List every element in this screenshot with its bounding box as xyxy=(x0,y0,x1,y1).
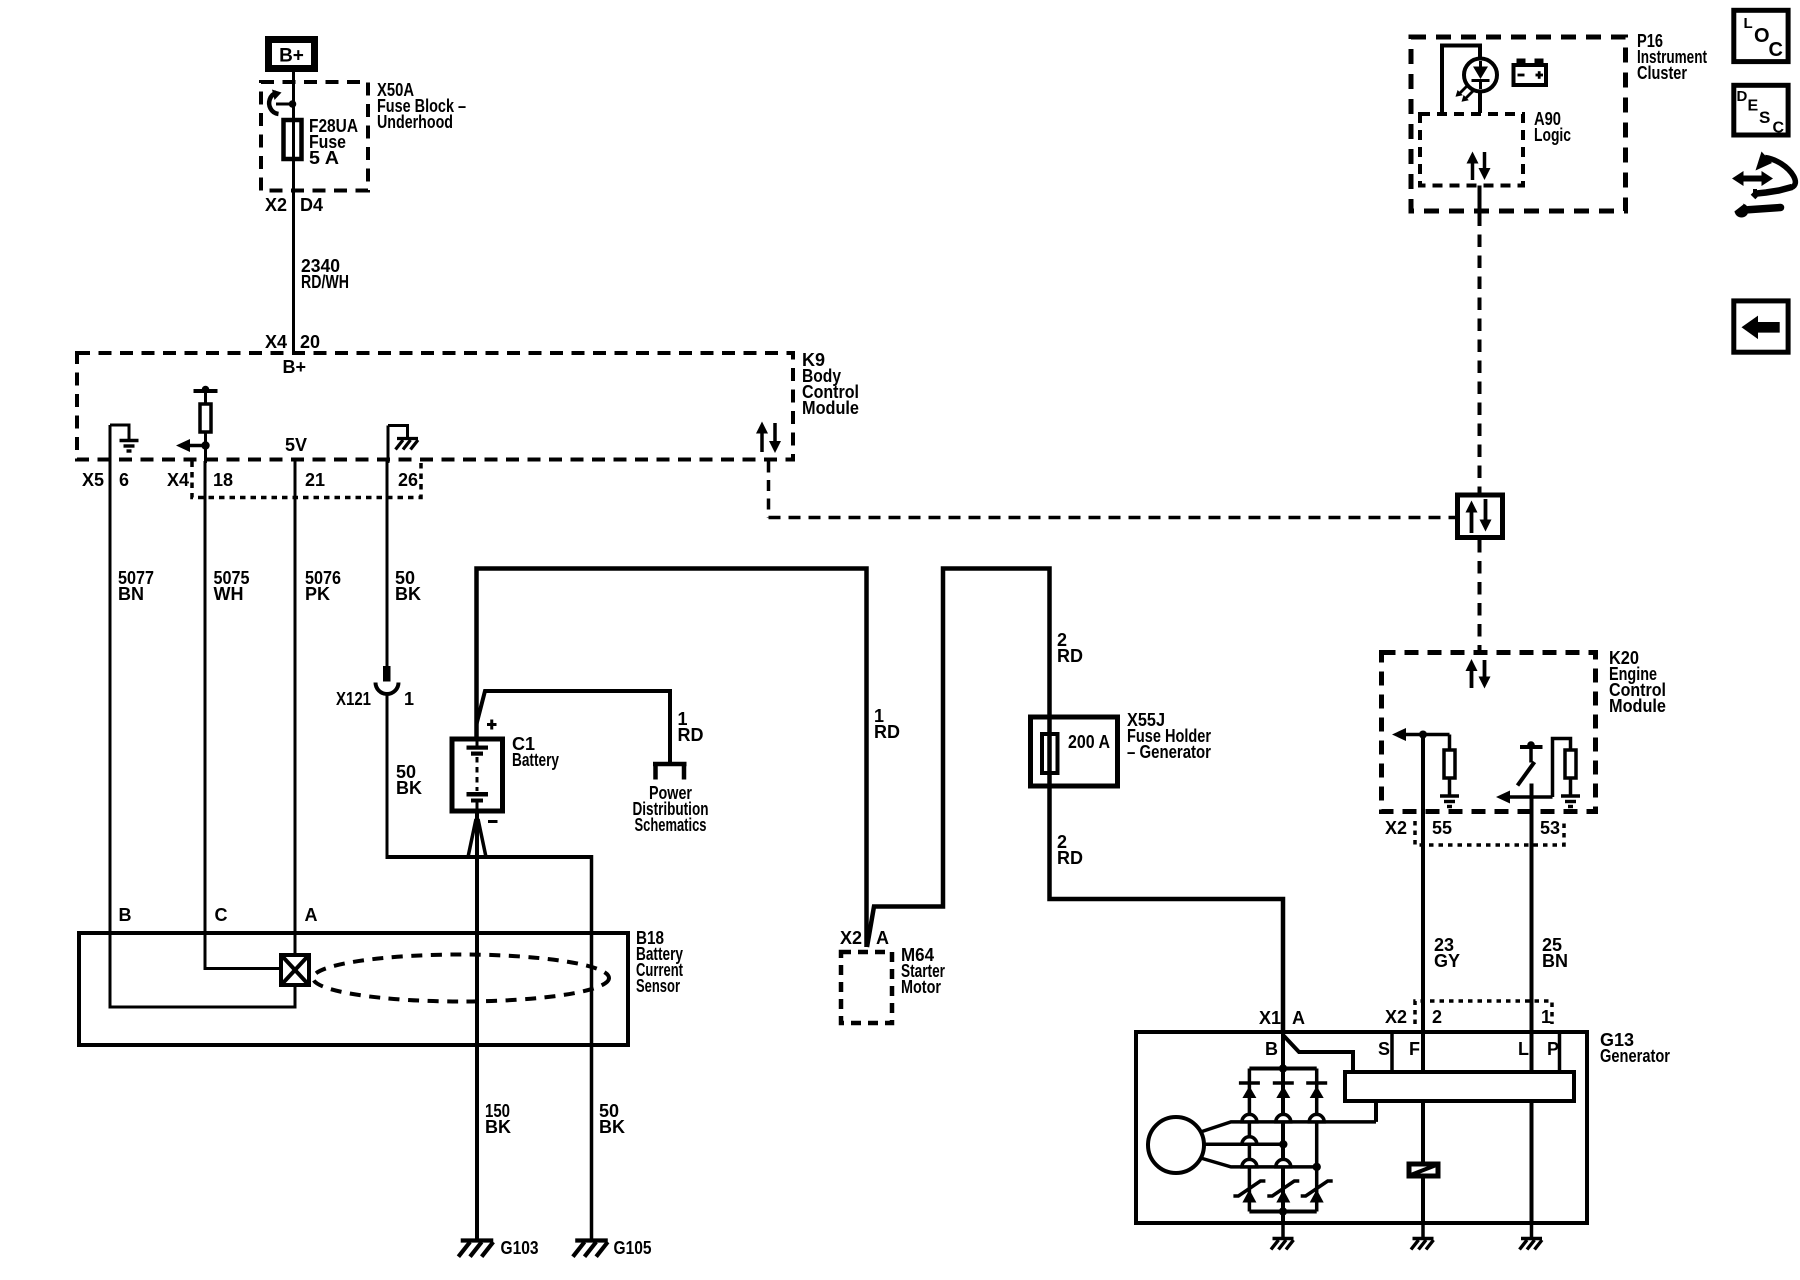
ECM field control driver (pin 55) with arrow xyxy=(1392,728,1450,741)
svg-text:BK: BK xyxy=(395,584,421,604)
svg-text:X2: X2 xyxy=(840,928,862,948)
svg-text:55: 55 xyxy=(1432,818,1452,838)
voltage regulator box xyxy=(1345,1072,1574,1101)
fuse F28UA 5A xyxy=(284,120,302,159)
icon LOC button xyxy=(1734,10,1788,61)
svg-text:G105: G105 xyxy=(614,1238,652,1258)
label X55J Fuse Holder - Generator xyxy=(1127,710,1211,762)
svg-text:20: 20 xyxy=(300,332,320,352)
pin labels X2 2 1 (generator connector) xyxy=(1385,1007,1551,1027)
rotor/stator circle xyxy=(1148,1117,1204,1173)
terminal labels B S F L P xyxy=(1265,1039,1559,1059)
wire 50 BK from X121 to battery negative bus xyxy=(386,693,389,859)
svg-text:6: 6 xyxy=(119,470,129,490)
svg-text:A: A xyxy=(1292,1008,1305,1028)
icon back arrow button xyxy=(1734,301,1788,352)
P terminal stub xyxy=(1558,1030,1562,1071)
generator internal ground (field) xyxy=(1411,1225,1434,1250)
svg-text:S: S xyxy=(1759,108,1770,127)
svg-text:X2: X2 xyxy=(1385,818,1407,838)
svg-text:BK: BK xyxy=(599,1117,625,1137)
svg-text:Schematics: Schematics xyxy=(635,815,707,835)
svg-text:Underhood: Underhood xyxy=(377,112,453,132)
svg-text:X121: X121 xyxy=(336,689,371,709)
wire label 50 BK xyxy=(395,568,421,604)
wire label 2 RD (upper) xyxy=(1057,630,1083,666)
fuse 200 A inside X55J xyxy=(1042,732,1110,773)
wire battery positive branch to power distribution xyxy=(477,691,671,762)
svg-text:A: A xyxy=(876,928,889,948)
wire hop-overs on stator leads xyxy=(1242,1114,1324,1166)
svg-text:RD: RD xyxy=(1057,646,1083,666)
svg-text:Battery: Battery xyxy=(512,750,559,770)
logic module A90 dashed box xyxy=(1420,114,1523,186)
pin labels X5 6 X4 18 21 26 xyxy=(82,470,418,490)
wire B+ feed from battery positive terminal down through fuse block xyxy=(292,70,295,352)
BCM internal B+ supply and resistor (pin X4-18 driver) xyxy=(176,386,218,463)
BCM internal chassis ground (pin 26) xyxy=(388,424,418,463)
connector X4 dotted box under BCM xyxy=(192,462,421,498)
wire label 5077 BN xyxy=(118,568,154,604)
battery C1 internal plates xyxy=(467,742,489,812)
generator negative avalanche diodes (bottom row) xyxy=(1233,1181,1332,1203)
ECM lamp monitor arrow line (pin 53) xyxy=(1496,791,1553,804)
svg-text:C: C xyxy=(1769,39,1783,61)
svg-text:53: 53 xyxy=(1540,818,1560,838)
svg-text:BK: BK xyxy=(485,1117,511,1137)
svg-text:1: 1 xyxy=(1541,1007,1551,1027)
svg-text:Module: Module xyxy=(802,398,859,418)
label C1 Battery xyxy=(512,734,559,770)
BCM serial data arrows xyxy=(756,422,781,454)
svg-text:Module: Module xyxy=(1609,696,1666,716)
ECM internal resistor to ground (pin 55 side) xyxy=(1440,735,1459,807)
svg-text:X5: X5 xyxy=(82,470,104,490)
label Power Distribution Schematics xyxy=(633,783,709,835)
pin labels X4 20 xyxy=(265,332,320,352)
ground G105 xyxy=(573,1238,652,1258)
svg-text:D4: D4 xyxy=(300,195,323,215)
battery C1 box xyxy=(452,739,503,811)
wire label 1 RD (power distribution) xyxy=(678,709,704,745)
wire 5075 WH from BCM X4-18 to B18 terminal C xyxy=(205,461,280,969)
generator diode bridge branch 1 xyxy=(1248,1069,1252,1212)
svg-text:BN: BN xyxy=(1542,951,1568,971)
svg-text:B: B xyxy=(119,905,132,925)
stator phase lead 2 xyxy=(1203,1143,1283,1147)
stator phase lead 1 to regulator xyxy=(1199,1122,1376,1133)
svg-text:X1: X1 xyxy=(1259,1008,1281,1028)
A90 serial data arrows xyxy=(1467,152,1491,181)
svg-text:S: S xyxy=(1378,1039,1390,1059)
generator G13 box xyxy=(1136,1032,1587,1223)
wire label 2 RD (lower) xyxy=(1057,832,1083,868)
wire serial data dashed from junction to ECM xyxy=(1478,540,1482,650)
node B+ label inside BCM xyxy=(283,357,307,377)
svg-text:18: 18 xyxy=(213,470,233,490)
svg-text:F: F xyxy=(1409,1039,1420,1059)
junction dots on stator leads xyxy=(1279,1140,1321,1171)
node 5V label xyxy=(285,435,307,455)
connector X2 dotted box under ECM xyxy=(1415,821,1564,845)
wire 50 BK from BCM pin 26 to X121 xyxy=(386,461,389,668)
svg-text:Logic: Logic xyxy=(1534,125,1571,145)
connector X2 dotted box above generator xyxy=(1415,1001,1552,1024)
module K20 Engine Control Module dashed box xyxy=(1382,653,1596,812)
svg-text:B+: B+ xyxy=(283,357,307,377)
icon DESC button xyxy=(1734,85,1788,136)
connector X50A fuse block dashed outline xyxy=(261,82,368,191)
svg-text:BN: BN xyxy=(118,584,144,604)
wire serial data dashed from instrument cluster down xyxy=(1478,214,1482,493)
BCM internal ground (pin X5-6) xyxy=(110,424,139,464)
wire label 5075 WH xyxy=(214,568,250,604)
wire 50 BK to G105 xyxy=(590,855,594,1239)
svg-text:E: E xyxy=(1748,98,1759,115)
sensor B18 box xyxy=(79,933,628,1045)
sensor clamp dashed ellipse xyxy=(313,955,609,1002)
icon hotlink arrows and wrench xyxy=(1731,152,1796,218)
power distribution takeoff symbol xyxy=(653,764,687,780)
svg-text:L: L xyxy=(1518,1039,1529,1059)
ECM serial data arrows xyxy=(1466,659,1491,689)
pin labels X1 A (generator B+) xyxy=(1259,1008,1305,1028)
svg-text:1: 1 xyxy=(404,689,414,709)
svg-text:D: D xyxy=(1737,88,1748,105)
wire label 1 RD (starter feed) xyxy=(874,706,900,742)
B+ battery positive voltage terminal box xyxy=(269,40,315,69)
wire 23 GY from ECM 55 to generator F xyxy=(1421,735,1425,1071)
svg-text:P: P xyxy=(1547,1039,1559,1059)
hall sensor element box with X xyxy=(281,955,309,985)
wire B terminal branch to regulator xyxy=(1283,1035,1353,1071)
node battery plus sign xyxy=(487,720,497,730)
stator phase lead 3 xyxy=(1199,1158,1317,1167)
wire label 50 BK (right) xyxy=(599,1101,625,1137)
svg-text:O: O xyxy=(1754,25,1770,47)
fuse clip symbol inside fuse block xyxy=(269,90,296,115)
wire 5077 BN from BCM X5-6 to B18 terminal B xyxy=(110,461,295,1007)
charge indicator LED (circle diode) xyxy=(1464,59,1497,92)
label A90 Logic xyxy=(1534,109,1571,145)
module K9 Body Control Module dashed box xyxy=(77,353,793,460)
wire label 2340 RD/WH xyxy=(301,256,349,292)
svg-text:X2: X2 xyxy=(1385,1007,1407,1027)
wire label 50 BK below X121 xyxy=(396,762,422,798)
wire battery negative with converging junction xyxy=(468,811,486,1239)
svg-text:C: C xyxy=(1773,120,1785,137)
svg-text:Sensor: Sensor xyxy=(636,976,680,996)
label X50A Fuse Block - Underhood xyxy=(377,80,466,132)
wire ground bus at battery negative xyxy=(386,855,592,859)
svg-text:2: 2 xyxy=(1432,1007,1442,1027)
pin labels B C A (B18 sensor) xyxy=(119,905,318,925)
svg-text:– Generator: – Generator xyxy=(1127,742,1211,762)
field coil symbol on F wire xyxy=(1409,1164,1438,1176)
ECM internal supply and switch (pin 53 side) xyxy=(1518,741,1543,785)
label F28UA Fuse 5 A xyxy=(309,116,358,168)
pin labels X2 A (starter) xyxy=(840,928,889,948)
indicator LED loop wiring in cluster xyxy=(1442,46,1480,114)
svg-text:21: 21 xyxy=(305,470,325,490)
wire A90 to cluster edge xyxy=(1478,186,1482,215)
svg-text:WH: WH xyxy=(214,584,244,604)
generator internal ground (B bridge) xyxy=(1271,1225,1294,1250)
svg-text:26: 26 xyxy=(398,470,418,490)
svg-text:X4: X4 xyxy=(167,470,189,490)
wire 25 BN from ECM 53 to generator L xyxy=(1530,784,1534,1071)
svg-text:BK: BK xyxy=(396,778,422,798)
wire label 150 BK xyxy=(485,1101,511,1137)
label M64 Starter Motor xyxy=(901,945,945,997)
svg-text:200 A: 200 A xyxy=(1068,732,1110,752)
svg-text:Cluster: Cluster xyxy=(1637,63,1687,83)
label B18 Battery Current Sensor xyxy=(636,928,683,996)
svg-text:RD: RD xyxy=(1057,848,1083,868)
generator positive diodes (top row) xyxy=(1239,1083,1327,1098)
motor M64 Starter Motor dashed box xyxy=(841,952,892,1023)
svg-text:X2: X2 xyxy=(265,195,287,215)
svg-text:A: A xyxy=(305,905,318,925)
svg-text:Generator: Generator xyxy=(1600,1046,1670,1066)
generator internal ground (lamp driver) xyxy=(1520,1225,1543,1250)
S terminal stub xyxy=(1390,1030,1394,1071)
wire L below regulator to ground xyxy=(1530,1102,1534,1225)
wire F below regulator to field coil xyxy=(1421,1102,1425,1225)
wire label 5076 PK xyxy=(305,568,341,604)
wire starter B+ post to generator 200A fuse xyxy=(867,569,1283,1032)
connector X121 pin 1 xyxy=(376,666,399,694)
svg-text:L: L xyxy=(1744,15,1753,32)
wire label 25 BN xyxy=(1542,935,1568,971)
ECM internal pull-up resistor to ground (pin 53 side) xyxy=(1553,739,1581,807)
svg-text:RD/WH: RD/WH xyxy=(301,272,349,292)
wire 5076 PK from BCM pin 21 to B18 terminal A xyxy=(294,460,297,954)
ground G103 xyxy=(458,1238,538,1258)
generator diode bridge branch 2 (B output) xyxy=(1281,1031,1285,1225)
svg-text:5 A: 5 A xyxy=(309,148,339,168)
svg-text:GY: GY xyxy=(1434,951,1460,971)
wire battery positive to 1 RD feed to starter xyxy=(477,569,867,948)
svg-text:G103: G103 xyxy=(501,1238,539,1258)
svg-text:X4: X4 xyxy=(265,332,287,352)
label X121 1 xyxy=(336,689,414,709)
pin labels X2 D4 xyxy=(265,195,323,215)
label P16 Instrument Cluster xyxy=(1637,31,1707,83)
label K9 Body Control Module xyxy=(802,350,859,418)
generator diode bridge branch 3 xyxy=(1315,1069,1319,1212)
voltage regulator sense wire xyxy=(1374,1102,1378,1122)
svg-text:B: B xyxy=(1265,1039,1278,1059)
wire serial data dashed from BCM xyxy=(769,462,1456,518)
module P16 Instrument Cluster dashed box xyxy=(1411,37,1626,211)
svg-text:B+: B+ xyxy=(279,46,304,67)
svg-text:C: C xyxy=(215,905,228,925)
generator bottom bus xyxy=(1249,1207,1316,1215)
label G13 Generator xyxy=(1600,1030,1670,1066)
pin labels X2 55 53 xyxy=(1385,818,1560,838)
battery telltale icon xyxy=(1514,59,1547,86)
fuse holder X55J box xyxy=(1031,717,1118,786)
svg-text:RD: RD xyxy=(874,722,900,742)
LED emission arrows xyxy=(1456,86,1474,102)
svg-text:Motor: Motor xyxy=(901,977,941,997)
svg-text:RD: RD xyxy=(678,725,704,745)
label K20 Engine Control Module xyxy=(1609,648,1666,716)
wire label 23 GY xyxy=(1434,935,1460,971)
svg-text:5V: 5V xyxy=(285,435,307,455)
serial data junction box with arrows xyxy=(1458,495,1503,538)
svg-text:PK: PK xyxy=(305,584,330,604)
generator top bus xyxy=(1249,1064,1316,1072)
node battery minus sign xyxy=(488,820,498,823)
